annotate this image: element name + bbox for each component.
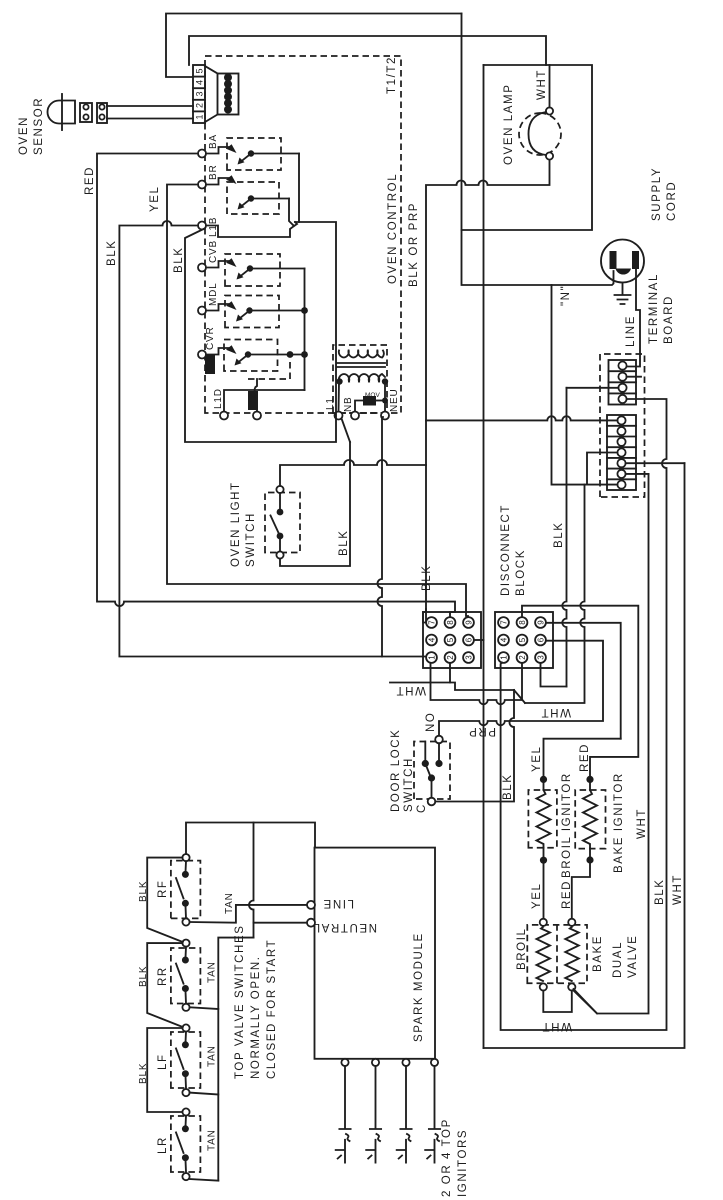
relay BR: [198, 165, 289, 215]
wire BLK rail 1 (L1B): [119, 221, 425, 657]
svg-text:5: 5: [446, 637, 455, 642]
broil ignitor: [528, 790, 557, 848]
svg-text:2: 2: [446, 655, 455, 660]
dual valve: [527, 919, 587, 991]
node bake dots: [586, 856, 593, 863]
wire NEU to blocks: [378, 417, 383, 657]
wire RF top feed: [186, 823, 315, 855]
svg-text:MDL: MDL: [208, 282, 219, 306]
spark module ignitor terminals: [341, 1059, 348, 1066]
svg-text:NEU: NEU: [389, 388, 400, 412]
svg-text:TAN: TAN: [207, 1129, 218, 1151]
svg-text:LINE: LINE: [625, 315, 637, 347]
oven control box (dashed): [205, 56, 401, 413]
bake ignitor: [575, 790, 605, 849]
relay MDL: [198, 282, 305, 327]
svg-text:8: 8: [446, 620, 455, 625]
svg-text:NEUTRAL: NEUTRAL: [312, 921, 377, 933]
svg-text:BLK: BLK: [138, 966, 149, 987]
svg-text:WHT: WHT: [540, 706, 571, 718]
wire LR drop: [190, 1179, 219, 1181]
wire term1 lower to BLK lamp run: [426, 416, 617, 420]
svg-text:1: 1: [195, 114, 205, 119]
wire BR contact out: [289, 199, 293, 226]
wire L1B feed: [206, 226, 294, 238]
svg-text:5: 5: [195, 68, 205, 73]
oven sensor: [48, 94, 107, 130]
terminal board: [600, 354, 645, 497]
svg-text:SUPPLY: SUPPLY: [651, 167, 663, 221]
connector strip 1-5: [193, 65, 205, 123]
svg-text:C: C: [416, 803, 428, 813]
supply cord plug: [601, 240, 644, 283]
svg-text:BLK: BLK: [138, 881, 149, 902]
svg-text:CVB: CVB: [208, 240, 219, 263]
ground symbol: [615, 283, 631, 305]
wire block B pin1 rail (BLK): [501, 399, 667, 1030]
svg-text:PRP: PRP: [468, 725, 496, 737]
svg-text:8: 8: [518, 620, 527, 625]
svg-text:VALVE: VALVE: [627, 935, 639, 978]
wire pin4 to right rail: [166, 14, 462, 78]
svg-text:LF: LF: [157, 1053, 169, 1070]
connector plug (trapezoid with pins): [205, 66, 239, 122]
wire TAN bus: [218, 938, 253, 1181]
svg-text:OVEN LAMP: OVEN LAMP: [503, 83, 515, 165]
wire light switch left to BLK net: [280, 442, 350, 566]
wire pin5 to second rail: [189, 36, 546, 65]
svg-text:BLK: BLK: [138, 1063, 149, 1084]
svg-text:RED: RED: [84, 166, 96, 195]
wire plug line slot: [627, 269, 641, 367]
svg-text:WHT: WHT: [636, 808, 648, 839]
svg-text:6: 6: [464, 637, 473, 642]
svg-text:BLK: BLK: [173, 246, 185, 273]
wire door NO (PRP): [439, 641, 603, 736]
svg-text:BR: BR: [208, 165, 219, 181]
svg-text:BOARD: BOARD: [663, 295, 675, 344]
terminal L1B: [198, 222, 206, 230]
wire BLK zigzag RR-LF: [147, 943, 183, 1027]
svg-text:BROIL IGNITOR: BROIL IGNITOR: [561, 772, 573, 878]
ignitor 3: [397, 1066, 412, 1163]
svg-text:RED: RED: [561, 880, 573, 909]
disconnect block A: [423, 612, 481, 668]
svg-text:TAN: TAN: [207, 1045, 218, 1067]
svg-text:BLK: BLK: [502, 773, 514, 800]
svg-text:BLK: BLK: [338, 529, 350, 556]
label AUX (inverse): [205, 355, 215, 374]
svg-text:SPARK MODULE: SPARK MODULE: [413, 932, 425, 1042]
svg-text:YEL: YEL: [531, 745, 543, 772]
svg-text:IGNITORS: IGNITORS: [457, 1129, 469, 1197]
svg-text:9: 9: [464, 620, 473, 625]
wire YEL rail: [167, 185, 468, 617]
svg-text:BAKE IGNITOR: BAKE IGNITOR: [613, 772, 625, 873]
wire lamp/neutral run: [426, 159, 550, 622]
svg-text:CORD: CORD: [666, 181, 678, 221]
svg-text:TAN: TAN: [207, 961, 218, 983]
wire L1A with hop: [255, 379, 257, 412]
svg-text:TERMINAL: TERMINAL: [648, 273, 660, 344]
wire block A pin2 to WHT: [390, 663, 450, 683]
wire WHT right rail: [462, 65, 593, 230]
svg-text:3: 3: [464, 655, 473, 660]
wire lamp top (WHT): [549, 65, 551, 107]
terminal L1D: [220, 412, 228, 420]
svg-text:RR: RR: [157, 966, 169, 986]
svg-text:9: 9: [536, 620, 545, 625]
svg-text:4: 4: [427, 637, 436, 642]
relay CVB: [198, 240, 305, 286]
wire valve to WHT rail diagonal: [574, 989, 598, 1014]
wire WHT stub: [450, 683, 514, 691]
svg-text:1: 1: [427, 655, 436, 660]
svg-text:YEL: YEL: [149, 185, 161, 212]
wire LF drop: [190, 1093, 219, 1095]
ignitor 2: [366, 1066, 381, 1163]
wire NEUTRAL feed: [249, 823, 254, 938]
svg-text:LINE: LINE: [322, 897, 354, 909]
wire term3 to BLK run: [567, 387, 619, 389]
varistor MOV: [355, 401, 363, 412]
svg-text:DUAL: DUAL: [612, 941, 624, 978]
oven light switch: [265, 486, 300, 559]
wire sensor pin1: [107, 118, 193, 120]
svg-text:2 OR 4 TOP: 2 OR 4 TOP: [441, 1118, 453, 1197]
wire WHT rail left leg: [484, 463, 685, 1048]
wire light switch right to neutral net: [280, 460, 426, 486]
svg-text:7: 7: [427, 620, 436, 625]
wire broil feed from block B pin9: [546, 623, 621, 739]
wire L1 diagonal: [342, 419, 351, 443]
svg-text:BLOCK: BLOCK: [515, 549, 527, 596]
disconnect block B: [495, 612, 553, 668]
relay BA: [198, 134, 299, 170]
wire term2 stub: [627, 376, 641, 378]
svg-text:4: 4: [499, 637, 508, 642]
svg-text:BLK: BLK: [654, 878, 666, 905]
wire N rail: [462, 14, 614, 286]
svg-text:NO: NO: [425, 712, 437, 732]
transformer T1: [333, 345, 388, 413]
svg-text:WHT: WHT: [395, 684, 426, 696]
ignitor 4: [425, 1066, 440, 1163]
wire N link to terminal run: [552, 285, 618, 485]
svg-text:BA: BA: [208, 134, 219, 149]
svg-text:MOV: MOV: [365, 392, 380, 399]
svg-text:BLK OR PRP: BLK OR PRP: [408, 202, 420, 287]
svg-text:CVR: CVR: [205, 326, 216, 350]
svg-text:DISCONNECT: DISCONNECT: [500, 504, 512, 596]
svg-text:RF: RF: [157, 879, 169, 898]
wire WHT lower rail: [483, 65, 485, 1048]
wire block A pin6 to WHT rail: [474, 639, 484, 641]
wire L1D: [224, 390, 305, 412]
wire term4 lower merge: [587, 453, 617, 485]
svg-text:T1/T2: T1/T2: [386, 56, 398, 94]
wire RR drop: [190, 1007, 219, 1009]
svg-text:NB: NB: [343, 397, 354, 413]
terminal NEU: [381, 412, 389, 420]
wire term5 leg: [626, 462, 685, 464]
svg-text:OVEN: OVEN: [18, 116, 30, 155]
wire term6 leg to WHT mid rail: [626, 473, 649, 475]
terminal L1A (inverse label): [253, 412, 261, 420]
top valve switch LF: [171, 1024, 201, 1096]
svg-text:SWITCH: SWITCH: [245, 512, 257, 567]
svg-text:6: 6: [536, 637, 545, 642]
terminal L1: [335, 412, 343, 420]
svg-text:3: 3: [195, 91, 205, 96]
door lock switch: [414, 736, 450, 806]
wire valve common jumper: [543, 991, 572, 1012]
wire block A pin7 hook: [423, 609, 426, 623]
wire BLK run (block B pin3 to term3): [562, 388, 566, 687]
svg-text:BROIL: BROIL: [516, 927, 528, 970]
wire broil YEL run: [544, 739, 621, 919]
wire RED rail: [97, 154, 455, 617]
svg-text:OVEN LIGHT: OVEN LIGHT: [230, 481, 242, 567]
svg-text:7: 7: [499, 620, 508, 625]
wire merge run to term7 leg: [525, 485, 585, 703]
wire RF TAN to LINE: [190, 905, 307, 923]
svg-text:4: 4: [195, 80, 205, 85]
oven lamp: [519, 107, 561, 159]
svg-text:5: 5: [518, 637, 527, 642]
svg-text:LR: LR: [157, 1136, 169, 1154]
svg-text:YEL: YEL: [531, 882, 543, 909]
wire block A pin1 to block B pin2: [431, 663, 523, 704]
svg-text:L1: L1: [325, 397, 336, 410]
svg-text:3: 3: [536, 655, 545, 660]
svg-text:SWITCH: SWITCH: [403, 757, 415, 812]
svg-text:WHT: WHT: [536, 69, 548, 100]
node CVB rail: [304, 269, 306, 391]
wire BLK rail 2 (L1B diag): [185, 222, 336, 442]
wire BLK zigzag RF-RR: [147, 858, 183, 942]
svg-text:TAN: TAN: [224, 892, 235, 914]
top valve switch RR: [171, 940, 201, 1011]
svg-text:WHT: WHT: [541, 1020, 572, 1032]
wire BLK zigzag LF-LR: [147, 1028, 182, 1112]
svg-text:2: 2: [518, 655, 527, 660]
wire sensor pin2: [107, 105, 193, 107]
wire WHT mid rail: [574, 474, 649, 1014]
svg-text:BLK: BLK: [553, 521, 565, 548]
svg-text:L1D: L1D: [213, 388, 224, 409]
wire BA contact out: [295, 154, 299, 223]
terminal NB: [351, 412, 359, 420]
svg-text:SENSOR: SENSOR: [33, 97, 45, 155]
svg-text:DOOR LOCK: DOOR LOCK: [390, 729, 402, 812]
spark module: [307, 848, 435, 1059]
svg-text:TOP VALVE SWITCHES: TOP VALVE SWITCHES: [234, 925, 246, 1079]
wire jog to door net: [514, 690, 525, 703]
svg-text:AUX: AUX: [205, 354, 215, 372]
svg-text:"N": "N": [560, 285, 572, 306]
wire L1A dashed link: [248, 358, 290, 379]
svg-text:2: 2: [195, 103, 205, 108]
svg-text:OVEN CONTROL: OVEN CONTROL: [387, 173, 399, 284]
wire bake RED run: [522, 606, 638, 919]
node merge junction: [293, 222, 297, 226]
svg-text:WHT: WHT: [672, 874, 684, 905]
relay CVR: [198, 326, 305, 371]
svg-text:BLK: BLK: [106, 239, 118, 266]
svg-text:RED: RED: [579, 743, 591, 772]
svg-text:BAKE: BAKE: [592, 935, 604, 972]
wire door C (BLK): [435, 690, 514, 802]
top valve switch LR: [171, 1108, 201, 1180]
wire block B pin3 link: [541, 663, 567, 687]
svg-text:CLOSED FOR START: CLOSED FOR START: [266, 939, 278, 1079]
svg-text:NORMALLY OPEN.: NORMALLY OPEN.: [250, 955, 262, 1079]
node broil dots: [540, 857, 547, 864]
ignitor 1: [336, 1066, 351, 1163]
svg-text:1: 1: [499, 655, 508, 660]
svg-text:BLK: BLK: [421, 564, 433, 591]
wire NEUTRAL drop: [254, 922, 308, 924]
top valve switch RF: [171, 854, 201, 926]
